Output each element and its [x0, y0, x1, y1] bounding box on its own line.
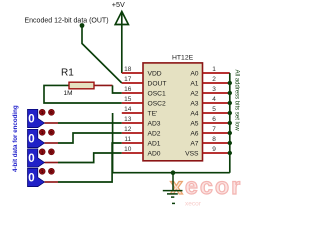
- logicstate D1 pads: [39, 109, 45, 115]
- pin 16 OSC1 stub: [122, 92, 143, 94]
- svg-text:+5V: +5V: [112, 0, 125, 9]
- wire +5V to pin 18 VDD: [121, 14, 123, 74]
- junction dot at ground: [171, 170, 176, 175]
- pin 2 A1 stub: [203, 82, 230, 84]
- svg-text:A3: A3: [190, 100, 198, 107]
- svg-text:17: 17: [124, 76, 132, 83]
- svg-text:HT12E: HT12E: [172, 55, 194, 62]
- svg-text:7: 7: [212, 126, 216, 133]
- node DOUT junction dot: [80, 23, 85, 28]
- svg-text:OSC1: OSC1: [148, 90, 166, 97]
- pin 12 AD2 stub: [122, 132, 143, 134]
- svg-text:9: 9: [212, 146, 216, 153]
- svg-text:AD2: AD2: [148, 130, 161, 137]
- svg-text:Encoded 12-bit data (OUT): Encoded 12-bit data (OUT): [25, 18, 109, 25]
- svg-text:A2: A2: [190, 90, 198, 97]
- svg-text:3: 3: [212, 86, 216, 93]
- svg-text:2: 2: [212, 76, 216, 83]
- svg-text:8: 8: [212, 136, 216, 143]
- svg-text:14: 14: [124, 106, 132, 113]
- svg-text:AD1: AD1: [148, 140, 161, 147]
- watermark xecor: [170, 173, 242, 208]
- pin 18 VDD stub: [122, 72, 143, 74]
- pin 15 OSC2 stub: [122, 102, 143, 104]
- svg-text:A7: A7: [190, 140, 198, 147]
- pin 14 TE stub: [122, 112, 143, 114]
- svg-text:16: 16: [124, 86, 132, 93]
- logicstate D2 pads: [39, 129, 45, 135]
- svg-text:6: 6: [212, 116, 216, 123]
- logicstate D4 wire to AD1 pin 11: [45, 181, 59, 183]
- logicstate D4 pads: [39, 168, 45, 174]
- svg-text:TE': TE': [148, 110, 158, 117]
- svg-text:0: 0: [28, 153, 34, 165]
- svg-text:OSC2: OSC2: [148, 100, 166, 107]
- logicstate D2 wire to AD2 pin 12: [45, 142, 59, 144]
- wire DOUT node to pin 17 (vertical + diagonal): [82, 26, 122, 84]
- logicstate D2 arrow: [28, 129, 45, 147]
- op IC U1 HT12E body: [143, 63, 203, 161]
- pin 3 A2 stub: [203, 92, 230, 94]
- svg-text:15: 15: [124, 96, 132, 103]
- svg-text:5: 5: [212, 106, 216, 113]
- wire TE pin14 to ground rail: [113, 113, 230, 173]
- pin 11 AD1 stub: [122, 142, 143, 144]
- svg-text:4-bit data for encoding: 4-bit data for encoding: [12, 105, 19, 172]
- svg-text:AD0: AD0: [148, 150, 161, 157]
- pin 4 A3 stub: [203, 102, 230, 104]
- svg-text:R1: R1: [61, 68, 74, 79]
- pin names right: [185, 70, 199, 157]
- pin 8 A7 stub: [203, 142, 230, 144]
- svg-text:1M: 1M: [64, 90, 73, 97]
- svg-text:1: 1: [212, 66, 216, 73]
- svg-text:0: 0: [28, 114, 34, 126]
- svg-text:AD3: AD3: [148, 120, 161, 127]
- pin 5 A4 stub: [203, 112, 230, 114]
- pin numbers right: [212, 66, 216, 153]
- svg-text:A4: A4: [190, 110, 198, 117]
- svg-text:12: 12: [124, 126, 132, 133]
- svg-text:A1: A1: [190, 80, 198, 87]
- svg-text:A6: A6: [190, 130, 198, 137]
- svg-text:0: 0: [28, 134, 34, 146]
- svg-text:4: 4: [212, 96, 216, 103]
- wire R1 right terminal: [94, 84, 113, 86]
- pin 10 AD0 stub: [122, 152, 143, 154]
- svg-text:All address bits set low: All address bits set low: [233, 70, 239, 132]
- svg-text:11: 11: [124, 136, 131, 143]
- svg-text:0: 0: [28, 173, 34, 185]
- wire address bus vertical: [229, 73, 231, 173]
- pin 9 VSS stub: [203, 152, 230, 154]
- wire R1 right to OSC1 pin 16: [113, 85, 122, 93]
- junction dots on address bus: [228, 81, 232, 85]
- svg-text:xecor: xecor: [170, 173, 242, 199]
- resistor R1 body: [69, 82, 94, 89]
- wire R1 left to OSC2 pin 15 loop: [44, 85, 122, 103]
- logicstate D3 arrow: [28, 149, 45, 167]
- svg-text:DOUT: DOUT: [148, 80, 167, 87]
- pin 17 DOUT stub: [122, 82, 143, 84]
- svg-text:VSS: VSS: [185, 150, 199, 157]
- ground symbol: [163, 173, 183, 204]
- power +5V arrow symbol: [115, 12, 128, 25]
- pin names left: [148, 70, 167, 157]
- svg-text:A5: A5: [190, 120, 198, 127]
- svg-text:VDD: VDD: [148, 70, 162, 77]
- svg-text:xecor: xecor: [185, 201, 202, 208]
- pin 1 A0 stub: [203, 72, 230, 74]
- logicstate D1 arrow: [28, 109, 45, 127]
- svg-text:18: 18: [124, 66, 132, 73]
- svg-text:13: 13: [124, 116, 132, 123]
- pin numbers left: [124, 66, 132, 153]
- svg-text:10: 10: [124, 146, 132, 153]
- svg-text:A0: A0: [190, 70, 198, 77]
- logicstate D1 wire to AD3 pin 13: [45, 122, 59, 124]
- pin 6 A5 stub: [203, 122, 230, 124]
- logicstate D3 pads: [39, 149, 45, 155]
- logicstate D3 wire to AD0 pin 10: [45, 162, 59, 164]
- pin 7 A6 stub: [203, 132, 230, 134]
- logicstate D4 arrow: [28, 168, 45, 186]
- pin 13 AD3 stub: [122, 122, 143, 124]
